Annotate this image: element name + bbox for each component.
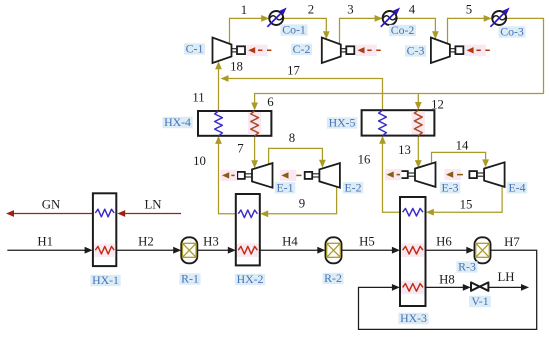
wire stream 17 (HX-5 to junction): [221, 75, 383, 110]
svg-text:Co-2: Co-2: [391, 23, 415, 37]
label R-3: [456, 260, 477, 274]
label HX-2: [235, 272, 265, 286]
HX-2 red coil: [237, 244, 259, 257]
label R-1: [179, 272, 200, 286]
node label 2: [308, 3, 314, 17]
svg-text:9: 9: [299, 197, 305, 211]
node label 3: [347, 3, 353, 17]
svg-text:GN: GN: [42, 198, 60, 212]
node label 8: [289, 131, 295, 145]
svg-text:HX-5: HX-5: [329, 116, 356, 130]
svg-text:4: 4: [409, 3, 416, 17]
stream label LH: [497, 270, 514, 284]
wire stream 12 branch (to HX-5): [415, 94, 422, 111]
valve V-1: [471, 282, 488, 290]
label E-4: [507, 180, 528, 194]
label Co-3: [498, 25, 525, 39]
wire stream 2 (Co-1 to C-2): [283, 18, 330, 39]
label V-1: [469, 294, 491, 308]
wire H7 recycle loop: [359, 250, 537, 329]
svg-text:HX-3: HX-3: [400, 311, 427, 325]
label C-1: [184, 42, 205, 56]
stream label H8: [439, 272, 455, 286]
stream label LN: [144, 198, 161, 212]
stream label H4: [282, 234, 298, 248]
wire H1: [7, 247, 92, 254]
HX-3 red coil middle: [401, 244, 424, 257]
stream label H6: [436, 234, 452, 248]
reactor R-1: [181, 237, 197, 263]
node label 15: [460, 198, 473, 212]
wire H2: [116, 247, 181, 254]
expander E-2: [305, 163, 340, 188]
label E-1: [275, 180, 296, 194]
svg-text:H7: H7: [504, 235, 520, 249]
svg-text:E-3: E-3: [441, 180, 458, 194]
wire stream 5 (C-3 outlet to Co-3): [448, 15, 492, 44]
HX-1 blue coil: [95, 209, 114, 217]
svg-text:R-1: R-1: [181, 272, 199, 286]
label E-3: [440, 180, 461, 194]
label C-3: [405, 44, 426, 58]
wire H3: [197, 247, 236, 254]
heat exchanger HX-4 box: [198, 111, 271, 136]
svg-text:18: 18: [230, 60, 243, 74]
stream label H2: [138, 234, 154, 248]
wire stream 11/18 (HX-4 up to C-1): [215, 61, 222, 111]
HX-3 blue coil: [403, 208, 423, 216]
node label 16: [358, 153, 371, 167]
wire LH (V-1 outlet): [489, 284, 530, 291]
label Co-2: [389, 23, 416, 37]
node label 9: [299, 197, 305, 211]
compressor C-1: [213, 38, 246, 64]
svg-text:LN: LN: [144, 198, 161, 212]
svg-text:HX-2: HX-2: [237, 272, 264, 286]
node label 10: [193, 154, 206, 168]
node label 11: [192, 91, 204, 105]
svg-text:11: 11: [192, 91, 204, 105]
svg-text:10: 10: [193, 154, 206, 168]
HX-5 blue coil: [379, 110, 387, 135]
node label 13: [398, 143, 411, 157]
label HX-4: [162, 115, 192, 129]
svg-text:C-1: C-1: [186, 42, 204, 56]
stream label GN: [42, 198, 60, 212]
label HX-1: [90, 273, 120, 287]
heat exchanger HX-3 box: [400, 197, 426, 306]
svg-text:17: 17: [287, 64, 300, 78]
expander E-1: [237, 163, 272, 188]
node label 12: [431, 98, 444, 112]
svg-text:C-3: C-3: [407, 44, 425, 58]
svg-text:1: 1: [241, 3, 247, 17]
compressor C-3: [431, 38, 464, 64]
svg-text:H6: H6: [436, 234, 452, 248]
node label 1: [241, 3, 247, 17]
svg-text:6: 6: [267, 95, 274, 109]
HX-2 blue coil: [238, 210, 257, 218]
HX-1 red coil: [94, 244, 115, 257]
svg-text:7: 7: [237, 142, 244, 156]
C-1 power arrow: [247, 45, 275, 56]
wire stream 6 (Co-3 around right side to HX-4): [251, 18, 543, 110]
svg-text:V-1: V-1: [471, 294, 488, 308]
label E-2: [343, 180, 364, 194]
svg-text:H5: H5: [359, 234, 375, 248]
node label 7: [237, 142, 244, 156]
svg-text:H3: H3: [203, 234, 219, 248]
node label 5: [466, 3, 472, 17]
svg-text:HX-1: HX-1: [92, 273, 119, 287]
cooler Co-2: [381, 8, 400, 27]
reactor R-2: [326, 237, 342, 263]
svg-text:R-2: R-2: [324, 271, 342, 285]
svg-text:HX-4: HX-4: [164, 115, 191, 129]
wire stream 4 (Co-2 to C-3): [397, 18, 439, 39]
compressor C-2: [322, 38, 355, 64]
svg-text:Co-3: Co-3: [500, 25, 524, 39]
wire stream 8 (E-1 to E-2): [269, 148, 326, 167]
label HX-5: [327, 116, 357, 130]
node label 4: [409, 3, 416, 17]
wire H8 (HX-3 to V-1): [426, 284, 471, 291]
node label 18: [230, 60, 243, 74]
wire H6: [426, 247, 475, 254]
node label 6: [267, 95, 274, 109]
wire stream 14 (E-3 to E-4): [432, 152, 490, 167]
wire stream 3 (C-2 outlet to Co-2): [340, 15, 383, 44]
wire H5: [342, 247, 400, 254]
C-2 power arrow: [356, 45, 384, 56]
label R-2: [322, 271, 343, 285]
wire stream 1 (C-1 outlet to Co-1): [230, 15, 270, 43]
svg-text:E-4: E-4: [508, 180, 525, 194]
stream label H5: [359, 234, 375, 248]
heat exchanger HX-2 box: [236, 194, 260, 265]
node label 17: [287, 64, 300, 78]
wire stream 13 (HX-5 to E-3): [415, 136, 422, 169]
heat exchanger HX-5 box: [362, 110, 435, 135]
HX-4 blue coil: [215, 111, 223, 136]
svg-text:E-2: E-2: [344, 180, 361, 194]
svg-text:13: 13: [398, 143, 411, 157]
svg-text:H4: H4: [282, 234, 298, 248]
svg-text:H8: H8: [439, 272, 455, 286]
svg-text:E-1: E-1: [276, 180, 293, 194]
reactor R-3: [475, 237, 491, 263]
svg-text:8: 8: [289, 131, 295, 145]
svg-text:2: 2: [308, 3, 314, 17]
wire stream 16 (HX-3 to HX-5): [379, 136, 400, 212]
svg-text:R-3: R-3: [458, 260, 476, 274]
cooler Co-1: [267, 8, 286, 27]
svg-text:14: 14: [456, 139, 469, 153]
HX-5 red coil: [412, 110, 425, 135]
svg-text:Co-1: Co-1: [282, 23, 306, 37]
stream label H7: [504, 235, 520, 249]
node label 14: [456, 139, 469, 153]
svg-text:H1: H1: [37, 234, 53, 248]
C-3 power arrow: [465, 45, 493, 56]
svg-text:5: 5: [466, 3, 472, 17]
label Co-1: [280, 23, 307, 37]
svg-text:12: 12: [431, 98, 444, 112]
svg-text:H2: H2: [138, 234, 154, 248]
expander E-4: [469, 162, 504, 187]
label C-2: [291, 42, 312, 56]
heat exchanger HX-1 box: [93, 193, 116, 266]
svg-text:C-2: C-2: [293, 42, 311, 56]
label HX-3: [398, 311, 428, 325]
HX-4 red coil: [248, 111, 261, 136]
wire H4: [260, 247, 326, 254]
expander E-3: [400, 162, 435, 187]
E-3 work arrow: [385, 169, 402, 180]
wire stream 9 (E-2 to HX-2): [260, 187, 336, 217]
stream label H3: [203, 234, 219, 248]
cooler Co-3: [490, 8, 509, 27]
wire LN (into HX-1): [117, 210, 181, 217]
wire stream 7 (HX-4 to E-1): [251, 136, 258, 169]
wire stream 10 (HX-2 to HX-4): [215, 136, 236, 214]
E-1 work arrow: [221, 170, 238, 181]
HX-3 red coil bottom: [401, 281, 424, 294]
E-4 work arrow: [445, 169, 464, 180]
svg-text:LH: LH: [497, 270, 514, 284]
stream label H1: [37, 234, 53, 248]
E-2 work arrow: [280, 170, 302, 181]
wire stream 15 (E-4 to HX-3): [426, 187, 502, 216]
wire GN (out of HX-1): [6, 210, 93, 217]
svg-text:15: 15: [460, 198, 473, 212]
svg-text:16: 16: [358, 153, 371, 167]
svg-text:3: 3: [347, 3, 353, 17]
